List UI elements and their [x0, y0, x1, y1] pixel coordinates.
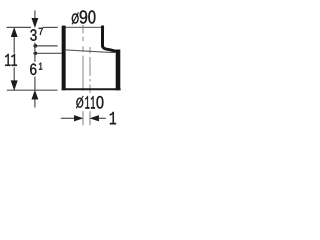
- dimension 6 segment between dots: [34, 46, 36, 53]
- centerline B dash crossing shoulder: [89, 47, 91, 54]
- label diameter 90 glyph 0: [88, 10, 95, 23]
- dimension 6 segment below label: [34, 77, 36, 91]
- label diameter 110 glyph oslash (circle part): [77, 98, 83, 107]
- centerline A solid lower part: [82, 56, 84, 91]
- label diameter 90 glyph oslash (slash part): [72, 12, 79, 24]
- extension line bottom: [7, 89, 58, 91]
- dimension 11 line lower segment: [13, 67, 15, 81]
- dimension 11 line upper segment: [13, 36, 15, 53]
- dimension 1 extension line A: [82, 111, 84, 125]
- label diameter 110 glyph 0: [97, 96, 104, 109]
- label 11 second digit: [12, 54, 17, 66]
- label 3 superscript 7: [39, 28, 43, 35]
- label diameter 110 glyph 1 first: [85, 96, 89, 109]
- fitting right wall upper spigot: [101, 26, 104, 48]
- dimension 1 right leader: [98, 117, 106, 119]
- label 6 superscript 1: [39, 63, 42, 70]
- dimension 6 segment below lower dot: [34, 53, 36, 62]
- dimension 11 arrow up: [11, 28, 17, 36]
- fitting inner shoulder sloped line: [66, 50, 116, 53]
- dimension 3 arrow down: [32, 18, 38, 27]
- dimension 1 arrow right: [74, 116, 82, 121]
- centerline A dash: [82, 37, 84, 42]
- label diameter 90 glyph oslash (circle part): [72, 14, 78, 23]
- centerline B long dash: [89, 57, 91, 76]
- fitting step outer transition: [103, 46, 117, 52]
- dimension 1 left leader: [61, 117, 75, 119]
- dimension 6 outside arrow tail bottom: [34, 99, 36, 108]
- centerline A tick crossing top edge: [82, 25, 84, 33]
- extension line top right part: [43, 26, 58, 28]
- dimension 6 segment above upper dot: [34, 43, 36, 46]
- centerline B dot: [89, 79, 91, 82]
- dot terminator at shoulder level: [33, 51, 37, 55]
- fitting left wall thick: [62, 26, 66, 91]
- background: [0, 0, 130, 130]
- reference line with dot at step level: [35, 45, 58, 47]
- fitting bottom edge: [62, 88, 121, 90]
- dimension 1 extension line B: [89, 111, 91, 125]
- centerline A dash crossing shoulder: [82, 46, 84, 52]
- label 1 offset: [110, 112, 116, 124]
- extension line top left part: [7, 26, 31, 28]
- fitting top edge thin line: [62, 26, 104, 28]
- centerline B dash crossing bottom edge: [89, 85, 91, 93]
- label diameter 90 glyph 9: [80, 10, 87, 23]
- label diameter 110 glyph 1 second: [91, 96, 95, 109]
- dot terminator at step level: [33, 44, 37, 48]
- label 6: [30, 64, 36, 76]
- fitting right wall lower socket thick: [116, 50, 121, 91]
- dimension 3 outside arrow tail: [34, 10, 36, 19]
- dimension 11 arrow down: [11, 81, 17, 90]
- label diameter 110 glyph oslash (slash part): [76, 96, 83, 108]
- dimension 6 arrow up below extension line: [32, 91, 38, 99]
- label 3: [30, 29, 36, 41]
- reference line with dot at shoulder level: [35, 52, 62, 54]
- dimension 1 arrow left: [91, 116, 99, 121]
- label 11 first digit: [5, 54, 10, 66]
